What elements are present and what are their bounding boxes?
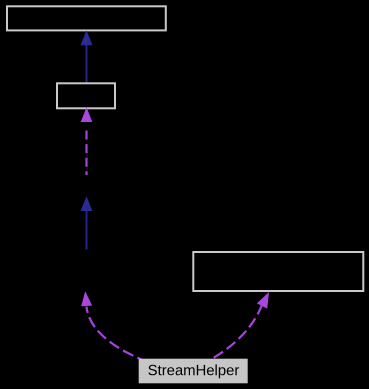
- node box second (empty label): [57, 83, 115, 108]
- node box right (empty label): [193, 252, 363, 291]
- node StreamHelper (current node, grey filled): [139, 359, 248, 384]
- inheritance arrow C (solid blue, middle segment): [81, 196, 93, 249]
- node box top (empty label): [7, 6, 166, 30]
- usage edge D (dashed purple curve, StreamHelper to left chain): [81, 291, 144, 360]
- inheritance arrow A (solid blue, small box to top box): [81, 30, 93, 83]
- usage edge E (dashed purple curve, StreamHelper to right box): [212, 292, 269, 359]
- usage arrow B (dashed purple, upward into second box): [81, 107, 93, 175]
